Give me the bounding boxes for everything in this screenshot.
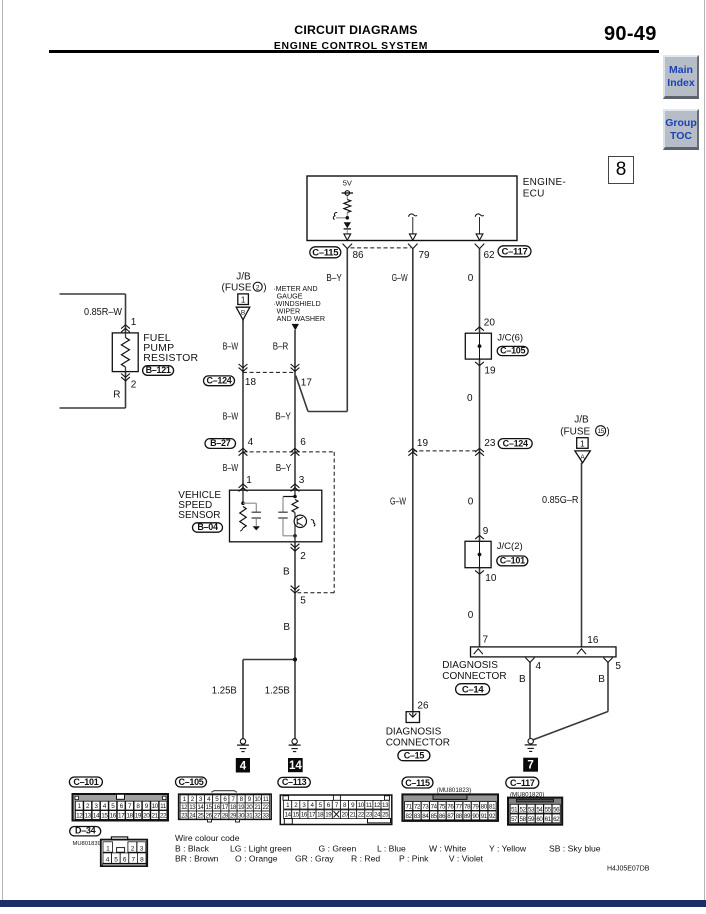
svg-text:10: 10 [485, 573, 497, 584]
svg-text:16: 16 [301, 812, 308, 819]
svg-text:26: 26 [417, 700, 429, 711]
svg-text:30: 30 [238, 812, 245, 819]
svg-text:DIAGNOSIS: DIAGNOSIS [442, 660, 498, 671]
svg-text:B–121: B–121 [146, 365, 171, 375]
svg-text:20: 20 [143, 813, 150, 820]
svg-text:BR : Brown: BR : Brown [175, 853, 219, 863]
svg-text:1: 1 [131, 317, 137, 328]
svg-text:15: 15 [101, 813, 108, 820]
svg-text:P : Pink: P : Pink [399, 853, 429, 863]
svg-text:83: 83 [414, 813, 421, 820]
svg-text:87: 87 [447, 813, 454, 820]
svg-text:W : White: W : White [429, 844, 466, 854]
svg-text:15: 15 [598, 428, 605, 435]
svg-text:9: 9 [483, 526, 489, 537]
svg-text:R : Red: R : Red [351, 853, 380, 863]
svg-text:21: 21 [152, 813, 159, 820]
svg-text:29: 29 [230, 812, 237, 819]
svg-text:15: 15 [293, 812, 300, 819]
svg-text:0.85G–R: 0.85G–R [542, 495, 579, 506]
svg-text:): ) [263, 282, 266, 293]
svg-text:75: 75 [439, 804, 446, 811]
svg-text:(FUSE: (FUSE [222, 282, 252, 293]
svg-text:25: 25 [197, 812, 204, 819]
svg-text:H4J05E07DB: H4J05E07DB [607, 865, 650, 872]
svg-text:5: 5 [615, 661, 621, 672]
svg-text:74: 74 [431, 804, 438, 811]
svg-text:(FUSE: (FUSE [560, 426, 590, 437]
svg-text:B: B [283, 567, 290, 578]
svg-text:23: 23 [366, 812, 373, 819]
svg-text:4: 4 [536, 661, 542, 672]
svg-text:A: A [580, 454, 585, 461]
svg-text:89: 89 [464, 813, 471, 820]
svg-text:1.25B: 1.25B [212, 685, 237, 696]
svg-text:V : Violet: V : Violet [449, 853, 484, 863]
svg-text:(MU801823): (MU801823) [437, 787, 471, 794]
svg-text:11: 11 [366, 802, 373, 809]
svg-text:24: 24 [189, 812, 196, 819]
svg-text:10: 10 [152, 803, 159, 810]
svg-text:C–117: C–117 [502, 247, 528, 258]
svg-text:23: 23 [484, 438, 496, 449]
svg-text:72: 72 [414, 804, 421, 811]
svg-text:ECU: ECU [523, 188, 545, 199]
svg-text:73: 73 [422, 804, 429, 811]
svg-text:61: 61 [545, 816, 552, 823]
svg-text:J/C(2): J/C(2) [497, 541, 523, 552]
svg-text:62: 62 [553, 816, 560, 823]
svg-text:91: 91 [481, 813, 488, 820]
svg-text:86: 86 [439, 813, 446, 820]
svg-text:B–R: B–R [273, 341, 289, 352]
svg-text:B–Y: B–Y [326, 273, 342, 284]
svg-text:77: 77 [456, 804, 463, 811]
svg-text:2: 2 [300, 551, 306, 562]
svg-text:22: 22 [263, 804, 270, 811]
svg-text:SENSOR: SENSOR [178, 510, 220, 521]
svg-text:18: 18 [230, 804, 237, 811]
svg-text:0: 0 [468, 610, 474, 621]
svg-text:B–W: B–W [223, 341, 239, 352]
svg-text:14: 14 [93, 813, 100, 820]
svg-text:59: 59 [528, 816, 535, 823]
svg-text:13: 13 [382, 802, 389, 809]
svg-text:B–W: B–W [223, 412, 239, 423]
svg-text:7: 7 [527, 760, 533, 772]
svg-text:10: 10 [254, 796, 261, 803]
svg-text:21: 21 [254, 804, 261, 811]
svg-text:1: 1 [241, 295, 246, 305]
svg-text:54: 54 [536, 806, 543, 813]
svg-text:14: 14 [197, 804, 204, 811]
svg-text:52: 52 [520, 806, 527, 813]
svg-text:2: 2 [256, 285, 260, 292]
svg-text:C–117: C–117 [510, 778, 535, 788]
svg-text:19: 19 [135, 813, 142, 820]
svg-text:19: 19 [238, 804, 245, 811]
svg-text:19: 19 [325, 812, 332, 819]
svg-text:0: 0 [467, 393, 473, 404]
svg-text:C–101: C–101 [73, 777, 98, 787]
svg-text:71: 71 [406, 804, 413, 811]
svg-text:20: 20 [341, 812, 348, 819]
svg-text:R: R [113, 390, 120, 401]
svg-text:J/B: J/B [574, 415, 589, 426]
svg-text:7: 7 [483, 635, 489, 646]
svg-text:56: 56 [553, 806, 560, 813]
svg-text:CONNECTOR: CONNECTOR [386, 738, 450, 749]
svg-text:13: 13 [189, 804, 196, 811]
svg-text:2: 2 [131, 380, 137, 391]
svg-text:B–04: B–04 [197, 522, 218, 532]
svg-text:12: 12 [374, 802, 381, 809]
svg-text:60: 60 [536, 816, 543, 823]
svg-text:Wire colour code: Wire colour code [175, 833, 240, 843]
svg-text:79: 79 [472, 804, 479, 811]
svg-text:C–124: C–124 [206, 376, 231, 386]
svg-text:88: 88 [456, 813, 463, 820]
svg-text:16: 16 [214, 804, 221, 811]
svg-text:62: 62 [484, 250, 496, 261]
svg-text:24: 24 [374, 812, 381, 819]
svg-text:20: 20 [246, 804, 253, 811]
svg-text:1: 1 [580, 438, 585, 448]
svg-text:58: 58 [520, 816, 527, 823]
svg-text:15: 15 [206, 804, 213, 811]
svg-text:78: 78 [464, 804, 471, 811]
svg-text:14: 14 [285, 812, 292, 819]
svg-text:CONNECTOR: CONNECTOR [442, 671, 506, 682]
svg-text:23: 23 [181, 812, 188, 819]
svg-text:16: 16 [587, 635, 599, 646]
svg-text:B : Black: B : Black [175, 844, 210, 854]
svg-text:B–Y: B–Y [275, 412, 291, 423]
svg-text:G–W: G–W [392, 273, 408, 284]
svg-text:B: B [241, 309, 245, 316]
svg-text:DIAGNOSIS: DIAGNOSIS [386, 727, 442, 738]
svg-text:31: 31 [246, 812, 253, 819]
svg-text:C–15: C–15 [404, 751, 425, 761]
svg-text:LG : Light green: LG : Light green [230, 844, 292, 854]
svg-text:0: 0 [468, 273, 474, 284]
svg-text:11: 11 [263, 796, 270, 803]
svg-text:12: 12 [181, 804, 188, 811]
svg-text:92: 92 [489, 813, 496, 820]
svg-text:18: 18 [245, 377, 257, 388]
svg-text:Y : Yellow: Y : Yellow [489, 844, 527, 854]
svg-text:22: 22 [160, 813, 167, 820]
svg-text:53: 53 [528, 806, 535, 813]
svg-text:86: 86 [353, 250, 365, 261]
svg-text:0: 0 [468, 497, 474, 508]
svg-text:76: 76 [447, 804, 454, 811]
svg-text:0.85R–W: 0.85R–W [84, 307, 123, 318]
svg-text:18: 18 [126, 813, 133, 820]
svg-text:85: 85 [431, 813, 438, 820]
svg-text:G : Green: G : Green [319, 844, 357, 854]
svg-text:GR : Gray: GR : Gray [295, 853, 334, 863]
svg-text:J/B: J/B [236, 272, 251, 283]
svg-text:79: 79 [419, 250, 431, 261]
svg-text:C–105: C–105 [178, 777, 203, 787]
svg-text:SB : Sky blue: SB : Sky blue [549, 844, 601, 854]
svg-text:C–115: C–115 [312, 248, 339, 259]
svg-text:17: 17 [301, 378, 313, 389]
svg-text:20: 20 [484, 317, 496, 328]
svg-text:5V: 5V [343, 179, 352, 188]
svg-text:1: 1 [246, 475, 252, 486]
svg-text:11: 11 [160, 803, 167, 810]
svg-text:D–34: D–34 [75, 826, 96, 836]
svg-text:6: 6 [300, 437, 306, 448]
svg-text:4: 4 [240, 761, 247, 773]
svg-text:10: 10 [358, 802, 365, 809]
svg-text:13: 13 [84, 813, 91, 820]
svg-text:32: 32 [254, 812, 261, 819]
svg-text:C–14: C–14 [462, 685, 485, 696]
svg-text:22: 22 [358, 812, 365, 819]
svg-text:14: 14 [289, 760, 302, 772]
svg-text:81: 81 [489, 804, 496, 811]
svg-text:84: 84 [422, 813, 429, 820]
svg-text:AND WASHER: AND WASHER [277, 314, 325, 323]
svg-text:1.25B: 1.25B [265, 685, 290, 696]
svg-text:C–124: C–124 [503, 438, 528, 448]
svg-text:B–Y: B–Y [276, 463, 292, 474]
svg-text:26: 26 [206, 812, 213, 819]
svg-text:19: 19 [484, 365, 496, 376]
svg-text:B: B [598, 674, 605, 685]
svg-text:90: 90 [472, 813, 479, 820]
svg-text:19: 19 [417, 438, 429, 449]
svg-text:C–113: C–113 [282, 777, 307, 787]
svg-text:ENGINE-: ENGINE- [523, 177, 566, 188]
svg-text:16: 16 [110, 813, 117, 820]
svg-text:C–101: C–101 [500, 556, 525, 566]
svg-text:B–27: B–27 [210, 438, 231, 448]
svg-text:17: 17 [309, 812, 316, 819]
svg-text:B: B [519, 674, 526, 685]
svg-text:80: 80 [481, 804, 488, 811]
svg-text:3: 3 [299, 475, 305, 486]
svg-text:51: 51 [511, 806, 518, 813]
svg-text:17: 17 [222, 804, 229, 811]
svg-text:C–105: C–105 [500, 345, 525, 355]
svg-text:B–W: B–W [223, 463, 239, 474]
svg-text:55: 55 [545, 806, 552, 813]
svg-text:17: 17 [118, 813, 125, 820]
svg-text:5: 5 [300, 595, 306, 606]
svg-text:B: B [283, 622, 290, 633]
svg-text:28: 28 [222, 812, 229, 819]
svg-text:L : Blue: L : Blue [377, 844, 406, 854]
svg-text:12: 12 [76, 813, 83, 820]
svg-text:C–115: C–115 [405, 778, 430, 788]
svg-text:33: 33 [263, 812, 270, 819]
svg-text:82: 82 [406, 813, 413, 820]
svg-text:18: 18 [317, 812, 324, 819]
svg-text:27: 27 [214, 812, 221, 819]
svg-text:25: 25 [382, 812, 389, 819]
svg-text:O : Orange: O : Orange [235, 853, 278, 863]
svg-text:4: 4 [248, 437, 254, 448]
svg-text:RESISTOR: RESISTOR [143, 352, 198, 364]
svg-text:MU801839: MU801839 [73, 841, 101, 847]
svg-text:G–W: G–W [390, 497, 406, 508]
svg-text:): ) [606, 426, 609, 437]
svg-text:21: 21 [350, 812, 357, 819]
svg-text:J/C(6): J/C(6) [497, 333, 523, 344]
svg-text:57: 57 [511, 816, 518, 823]
